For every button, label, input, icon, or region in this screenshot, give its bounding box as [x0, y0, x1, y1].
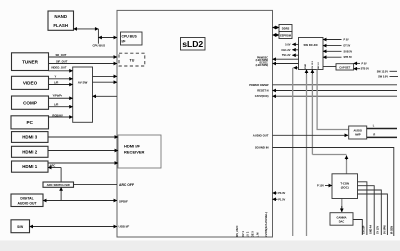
svg-text:RECEIVER: RECEIVER [124, 150, 145, 155]
svg-text:CPU BUS: CPU BUS [93, 43, 106, 47]
svg-text:AUDIO OUT: AUDIO OUT [17, 201, 37, 205]
svg-text:CH 13.5: CH 13.5 [312, 60, 314, 69]
svg-text:L/R: L/R [54, 80, 58, 84]
svg-text:DT 5V: DT 5V [344, 45, 351, 48]
svg-text:USB I/F: USB I/F [119, 225, 130, 229]
svg-text:LVDS(2ch-PANEL): LVDS(2ch-PANEL) [264, 212, 268, 237]
svg-text:VIDEO_OUT: VIDEO_OUT [51, 65, 67, 69]
svg-text:TUNER: TUNER [22, 60, 39, 65]
svg-text:CAP DET: CAP DET [339, 66, 350, 69]
svg-text:COMP: COMP [23, 100, 37, 105]
svg-text:GAMMA: GAMMA [336, 215, 346, 219]
svg-text:(SOC): (SOC) [341, 185, 349, 189]
svg-text:AUDIO: AUDIO [354, 128, 362, 132]
svg-text:Y/Pb/Pr: Y/Pb/Pr [53, 94, 63, 98]
svg-text:DV 1: DV 1 [241, 231, 245, 237]
svg-text:SD_OUT: SD_OUT [56, 53, 67, 57]
svg-text:STB 5V: STB 5V [361, 68, 370, 71]
svg-text:SOUND IN: SOUND IN [255, 146, 269, 150]
svg-text:TU: TU [130, 58, 135, 62]
svg-text:SW 13.5V: SW 13.5V [377, 70, 389, 73]
svg-text:P3.3V: P3.3V [278, 191, 285, 195]
svg-text:PWR: PWR [305, 63, 307, 69]
svg-text:SW DC-DC: SW DC-DC [304, 43, 318, 47]
svg-text:RS_232C: RS_232C [235, 225, 239, 236]
svg-text:SW 5.0V: SW 5.0V [378, 76, 388, 79]
svg-text:5V 5PW: 5V 5PW [383, 224, 386, 234]
svg-text:RESET N: RESET N [257, 89, 268, 93]
svg-text:L M: L M [256, 233, 260, 237]
svg-text:AV SW: AV SW [78, 80, 88, 84]
svg-text:SUB 5V: SUB 5V [344, 50, 353, 53]
svg-text:SD 5.0: SD 5.0 [318, 62, 320, 69]
svg-text:VIDEO: VIDEO [23, 81, 38, 86]
svg-text:DIGITAL: DIGITAL [20, 197, 33, 201]
svg-text:HDMI 1: HDMI 1 [22, 164, 37, 169]
svg-text:I/F: I/F [122, 40, 126, 44]
svg-text:SPDIF: SPDIF [119, 199, 128, 203]
svg-text:GND A4: GND A4 [370, 224, 373, 234]
svg-text:P 15V: P 15V [317, 184, 324, 188]
svg-text:FLASH: FLASH [53, 23, 68, 28]
svg-text:LV 2: LV 2 [246, 231, 250, 237]
svg-text:Y: Y [55, 75, 57, 79]
svg-text:PC: PC [27, 120, 34, 125]
svg-text:(LED PWM): (LED PWM) [256, 65, 269, 67]
svg-text:HDMI 3: HDMI 3 [22, 135, 37, 140]
svg-text:DAC: DAC [339, 219, 345, 223]
svg-text:ARC OFF: ARC OFF [119, 183, 134, 187]
svg-text:DE 5: DE 5 [251, 231, 255, 237]
svg-text:CATV(XXX): CATV(XXX) [255, 94, 269, 98]
svg-text:CPU BUS: CPU BUS [122, 35, 138, 39]
svg-text:AMP: AMP [355, 132, 361, 136]
svg-text:CN 33P: CN 33P [362, 225, 365, 234]
svg-text:5.0V: 5.0V [285, 42, 291, 46]
svg-text:POWER ON/SW: POWER ON/SW [249, 83, 269, 87]
svg-text:RGB/HV: RGB/HV [52, 113, 63, 117]
svg-text:P 5V: P 5V [362, 62, 368, 65]
svg-text:HDMI 2: HDMI 2 [22, 149, 37, 154]
svg-text:TS1.2V: TS1.2V [282, 53, 291, 57]
svg-text:ARC SWITCH SW: ARC SWITCH SW [47, 183, 71, 187]
svg-text:R: R [373, 132, 375, 136]
svg-text:SIF_OUT: SIF_OUT [56, 59, 68, 63]
svg-text:sLD2: sLD2 [182, 39, 203, 49]
svg-text:NAND: NAND [54, 14, 67, 19]
svg-text:IR SEN: IR SEN [390, 226, 393, 234]
svg-text:STB 5V: STB 5V [344, 56, 353, 59]
svg-text:HDMI I/F: HDMI I/F [124, 144, 141, 149]
svg-text:L/R: L/R [54, 103, 58, 107]
svg-text:DDR2: DDR2 [282, 26, 290, 30]
svg-text:S/W: S/W [17, 225, 23, 229]
svg-text:SY 12V: SY 12V [376, 226, 379, 234]
svg-text:ARC: ARC [50, 164, 56, 168]
svg-text:P 5V: P 5V [344, 39, 350, 42]
svg-text:CH1.2V: CH1.2V [281, 48, 290, 52]
svg-text:EEPROM: EEPROM [280, 34, 291, 37]
svg-text:P1.5V: P1.5V [278, 197, 285, 201]
svg-text:AUDIO OUT: AUDIO OUT [253, 133, 269, 137]
